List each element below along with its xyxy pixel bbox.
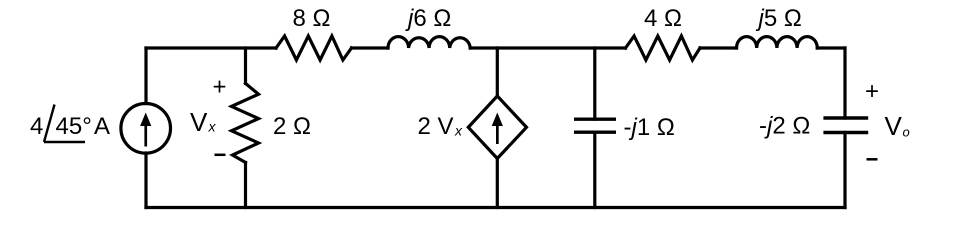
wire left rail lower [144, 153, 147, 208]
svg-text:A: A [94, 113, 110, 140]
svg-text:-j1 Ω: -j1 Ω [624, 114, 675, 141]
angle symbol slash [44, 105, 55, 143]
svg-text:2 Ω: 2 Ω [273, 113, 311, 140]
current source I1 circle [121, 104, 171, 154]
wire left rail upper [144, 48, 147, 104]
dependent current source diamond [468, 96, 526, 159]
label source value 4 angle 45 A [30, 113, 110, 140]
svg-text:V: V [190, 107, 208, 137]
wire dependent-source branch upper [496, 48, 499, 96]
capacitor -j2 plates [823, 116, 868, 119]
wire 2-ohm branch lower [244, 163, 247, 208]
wire right rail upper [843, 48, 846, 118]
svg-text:V: V [885, 111, 903, 141]
resistor R 2-ohm vertical [232, 83, 259, 162]
svg-text:4 Ω: 4 Ω [644, 5, 682, 32]
dependent source arrow [492, 113, 503, 145]
inductor j6-ohm [388, 37, 470, 48]
wire right rail lower [843, 133, 846, 208]
svg-text:-j2 Ω: -j2 Ω [759, 113, 810, 140]
svg-text:j5 Ω: j5 Ω [756, 5, 802, 32]
capacitor -j1 plates [574, 117, 616, 120]
svg-text:x: x [454, 123, 463, 139]
resistor R 8-ohm [276, 36, 352, 60]
svg-text:j6 Ω: j6 Ω [405, 5, 451, 32]
wire -j1 capacitor branch lower [593, 132, 596, 207]
svg-text:8 Ω: 8 Ω [293, 5, 331, 32]
wire top rail between j6 inductor and 4ohm [470, 46, 625, 49]
wire bottom rail [146, 206, 845, 209]
svg-text:2 V: 2 V [418, 113, 454, 140]
wire top rail between 4ohm and j5 inductor [700, 46, 737, 49]
svg-text:+: + [212, 73, 226, 100]
svg-text:45°: 45° [56, 113, 92, 140]
angle symbol underline [44, 141, 85, 143]
wire dependent-source branch lower [496, 158, 499, 208]
svg-text:4: 4 [30, 113, 43, 140]
svg-text:+: + [865, 78, 879, 105]
wire top rail right segment [817, 46, 845, 49]
svg-text:x: x [208, 119, 217, 135]
wire 2-ohm branch upper [244, 48, 247, 83]
current source I1 arrow [140, 113, 151, 147]
wire top rail between 8ohm and j6 inductor [352, 46, 389, 49]
label Vo minus sign [867, 158, 878, 161]
svg-text:o: o [903, 125, 910, 140]
resistor R 4-ohm [626, 36, 701, 60]
wire -j1 capacitor branch upper [593, 48, 596, 119]
label Vx minus sign [215, 154, 226, 157]
inductor j5-ohm [737, 37, 818, 48]
wire top rail left segment [146, 46, 276, 49]
